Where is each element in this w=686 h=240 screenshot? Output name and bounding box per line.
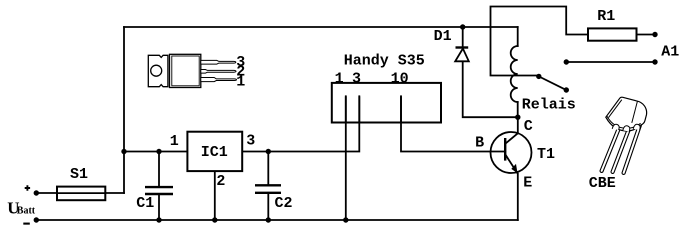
TO-92 left edge inner line [609,100,622,118]
wire C1 top lead [158,152,160,188]
svg-text:2: 2 [216,173,225,190]
wire C1 bottom lead [158,194,160,220]
label battery plus [25,185,30,190]
node C2 top [266,149,271,154]
label battery minus [23,223,30,225]
fuse S1 through wire [57,192,105,194]
relay switch arm [539,76,567,90]
wire D1 anode lead down and over to node K [463,62,518,118]
relay switch arm end [564,87,569,92]
wire coil top lead [517,27,519,46]
TO-220 pin 1 [201,78,237,82]
wire emitter to ground corner [517,174,519,220]
wire battery plus to fuse to riser [36,192,124,194]
svg-text:E: E [523,175,532,192]
capacitor C2 [255,185,281,193]
fuse S1 [57,187,105,201]
svg-text:Handy S35: Handy S35 [344,53,425,70]
transistor T1 emitter arrow [511,164,517,173]
node pin1 ground [343,217,348,222]
TO-220 tab with notches [148,55,168,86]
TO-92 leg C [602,129,619,171]
wire IC1 pin2 to ground [214,171,216,220]
node C2 ground [266,217,271,222]
TO-92 leg E [624,126,640,173]
connector Handy S35 [332,83,441,123]
terminal battery minus [34,217,39,222]
transistor T1 [491,132,532,174]
svg-text:B: B [475,134,484,151]
wire R1 to output dot [637,34,656,36]
node C1 ground [156,217,161,222]
connector pin stubs inside box [346,96,401,122]
wire coil bottom to node K [517,102,519,117]
TO-220 pin 2 [201,70,236,74]
svg-text:3: 3 [352,70,361,87]
TO-92 rim inner line [607,116,641,128]
node IC1 pin2 ground [212,217,217,222]
svg-text:Relais: Relais [522,96,576,113]
svg-text:T1: T1 [537,146,555,163]
svg-text:C1: C1 [136,195,154,212]
node K coil/diode/collector [515,115,520,120]
wire connector pin1 to ground [345,96,347,220]
svg-text:A1: A1 [661,43,679,60]
relay coil L1 [511,46,518,102]
TO-220 body inner [172,56,199,86]
regulator IC1 [187,132,242,171]
diode D1 [455,48,469,62]
wire IC1 output rail to connector pin3 [242,96,359,151]
capacitor C1 [145,187,173,194]
resistor R1 [588,28,637,40]
TO-220 pin 3 [201,60,236,64]
relay switch pivot [536,74,541,79]
svg-text:1: 1 [170,133,179,150]
wire left vertical battery plus riser [123,27,125,193]
terminal battery plus [34,190,39,195]
svg-text:Batt: Batt [17,205,36,216]
TO-92 face edge line [632,101,638,123]
relay fixed contact [564,59,569,64]
node C1 top [156,149,161,154]
svg-text:3: 3 [246,132,255,149]
wire relay common path [491,7,589,76]
wire IC1 input rail [124,151,187,153]
svg-text:10: 10 [391,70,409,87]
svg-text:S1: S1 [70,166,88,183]
node top of D1 [460,24,465,29]
TO-92 leg B [613,128,630,172]
TO-220 body outer [170,54,201,87]
wire connector pin10 to transistor base [401,96,505,151]
TO-220 mounting hole [151,65,162,76]
wire C2 top lead [267,152,269,186]
TO-220 package drawing [148,54,236,87]
TO-92 package drawing [602,97,647,173]
node riser/IC1 input [121,149,126,154]
wire top rail from battery corner to relay coil [124,26,518,28]
svg-text:C2: C2 [275,195,293,212]
wire A1 output line [566,61,655,63]
wire node K to collector [517,117,519,133]
svg-text:R1: R1 [597,8,615,25]
svg-text:CBE: CBE [589,175,616,192]
TO-92 body [606,97,647,131]
wire ground rail [36,219,518,221]
svg-text:C: C [524,118,533,135]
svg-text:D1: D1 [434,28,452,45]
svg-text:1: 1 [236,74,245,91]
terminal A1 line end [652,59,657,64]
terminal R1 output [652,32,657,37]
TO-92 leg collars [612,124,619,130]
wire D1 cathode lead [462,27,464,48]
wire C2 bottom lead [267,193,269,220]
svg-text:1: 1 [335,70,344,87]
svg-text:IC1: IC1 [201,144,228,161]
